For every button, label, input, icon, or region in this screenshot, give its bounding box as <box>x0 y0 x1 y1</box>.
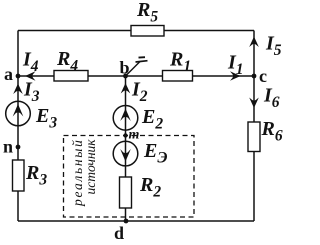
current arrow I6 (down) <box>249 98 259 109</box>
svg-text:I4: I4 <box>22 49 39 76</box>
svg-text:I1: I1 <box>227 52 244 79</box>
svg-text:R5: R5 <box>136 0 158 26</box>
source E2 circle <box>113 106 138 131</box>
source E_e emf arrow (down) <box>120 149 131 162</box>
wire middle horizontal a-b-c <box>18 75 254 77</box>
svg-text:источник: источник <box>83 139 98 195</box>
node d dot <box>124 219 129 224</box>
resistor R4 <box>54 71 88 82</box>
source E3 emf arrow <box>13 104 24 117</box>
resistor R6 <box>248 122 260 152</box>
switch stub at node b <box>126 62 141 77</box>
svg-text:b: b <box>120 58 130 78</box>
svg-text:E2: E2 <box>141 106 163 133</box>
svg-text:I5: I5 <box>265 33 282 60</box>
current arrow I2 (up) <box>121 83 131 94</box>
svg-text:E3: E3 <box>35 105 57 132</box>
current arrow I3 (up) <box>13 84 23 95</box>
node n dot <box>16 145 21 150</box>
resistor R1 <box>163 71 193 82</box>
svg-text:c: c <box>259 66 267 86</box>
wire top (a-c outer loop via R5) <box>18 30 254 32</box>
svg-text:R3: R3 <box>25 162 47 189</box>
svg-text:EЭ: EЭ <box>143 140 167 167</box>
resistor R5 <box>131 26 164 37</box>
resistor R2 <box>120 177 132 208</box>
wire right rail c-R6-bottom <box>253 31 255 222</box>
svg-text:I6: I6 <box>263 85 280 112</box>
switch bar short <box>139 56 146 58</box>
source E2 emf arrow <box>120 109 131 122</box>
current arrow I4 (left) <box>25 71 36 81</box>
wire middle branch b-m-d <box>125 76 127 221</box>
svg-text:I2: I2 <box>131 79 148 106</box>
resistor R3 <box>13 160 25 191</box>
node a dot <box>16 74 21 79</box>
source E_e circle <box>113 141 138 166</box>
switch bar long <box>136 61 148 62</box>
node b dot <box>123 74 128 79</box>
wire bottom n-d-R6 <box>18 220 254 222</box>
svg-text:m: m <box>129 128 140 143</box>
svg-text:I3: I3 <box>23 79 40 106</box>
source E3 circle <box>6 101 31 126</box>
svg-text:R6: R6 <box>261 118 283 145</box>
wire left rail a-n-bottom <box>17 31 19 222</box>
current arrow I1 (right) <box>230 71 241 81</box>
node m dot <box>123 133 127 137</box>
dashed box (real source boundary) <box>64 136 195 218</box>
svg-text:n: n <box>3 137 13 157</box>
svg-text:R2: R2 <box>139 174 161 201</box>
svg-text:d: d <box>114 223 124 243</box>
node c dot <box>252 74 257 79</box>
svg-text:a: a <box>4 64 13 84</box>
current arrow I5 (up) <box>249 37 259 48</box>
